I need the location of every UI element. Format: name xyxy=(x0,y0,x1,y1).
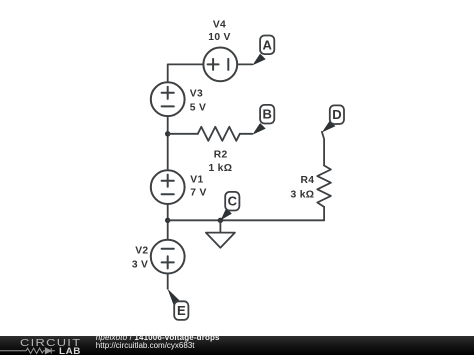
node C xyxy=(221,192,240,220)
svg-text:C: C xyxy=(228,194,238,209)
svg-text:1 kΩ: 1 kΩ xyxy=(209,163,233,174)
label V3 5 V xyxy=(190,89,206,114)
wire bottom horizontal to R4 xyxy=(168,219,324,221)
svg-text:V2: V2 xyxy=(135,245,148,256)
resistor R4 xyxy=(317,166,331,207)
node E xyxy=(168,289,189,320)
svg-text:3 kΩ: 3 kΩ xyxy=(291,190,315,201)
svg-text:10 V: 10 V xyxy=(208,32,230,43)
wire R2 to node B xyxy=(240,133,253,135)
voltage source V3 xyxy=(151,82,185,116)
wire V3 bottom to V1 top xyxy=(167,116,169,170)
svg-text:A: A xyxy=(263,37,273,52)
node A xyxy=(252,36,274,66)
logo resistor squiggle and diode xyxy=(0,348,55,354)
svg-text:V3: V3 xyxy=(190,89,203,100)
junction node at ground xyxy=(218,218,223,223)
svg-text:5 V: 5 V xyxy=(190,102,206,113)
svg-text:V4: V4 xyxy=(213,19,226,30)
svg-text:V1: V1 xyxy=(190,175,203,186)
footer bar xyxy=(0,336,474,355)
svg-text:R4: R4 xyxy=(301,175,315,186)
label V1 7 V xyxy=(190,175,206,199)
node B xyxy=(252,105,274,135)
wire V4 left to V3 top xyxy=(168,64,203,82)
wire R4 top to node D xyxy=(322,132,324,166)
credit text xyxy=(96,333,220,342)
wire junction to R2 xyxy=(168,133,198,135)
node D xyxy=(322,105,344,132)
voltage source V1 xyxy=(151,170,185,204)
label V2 3 V xyxy=(132,245,149,270)
label V4 10 V xyxy=(208,19,230,43)
svg-text:E: E xyxy=(177,303,186,318)
junction node at V1/V2 xyxy=(165,218,170,223)
svg-text:B: B xyxy=(263,107,272,122)
svg-text:3 V: 3 V xyxy=(132,259,148,270)
wire V1 bottom to V2 top xyxy=(167,204,169,240)
ground xyxy=(206,220,235,247)
voltage source V2 xyxy=(151,240,185,274)
junction node at V3/R2 xyxy=(165,131,170,136)
label R4 3 kOhm xyxy=(291,175,315,200)
wire V4 right to node A xyxy=(238,63,252,65)
voltage source V4 xyxy=(203,48,237,82)
resistor R2 xyxy=(198,127,240,141)
wire V2 bottom to node E xyxy=(167,274,169,289)
wire R4 bottom xyxy=(323,207,325,220)
CircuitLab logo xyxy=(20,338,81,349)
svg-text:D: D xyxy=(332,107,341,122)
svg-text:R2: R2 xyxy=(214,149,228,160)
svg-text:7 V: 7 V xyxy=(190,188,206,199)
label R2 1 kOhm xyxy=(209,149,233,174)
